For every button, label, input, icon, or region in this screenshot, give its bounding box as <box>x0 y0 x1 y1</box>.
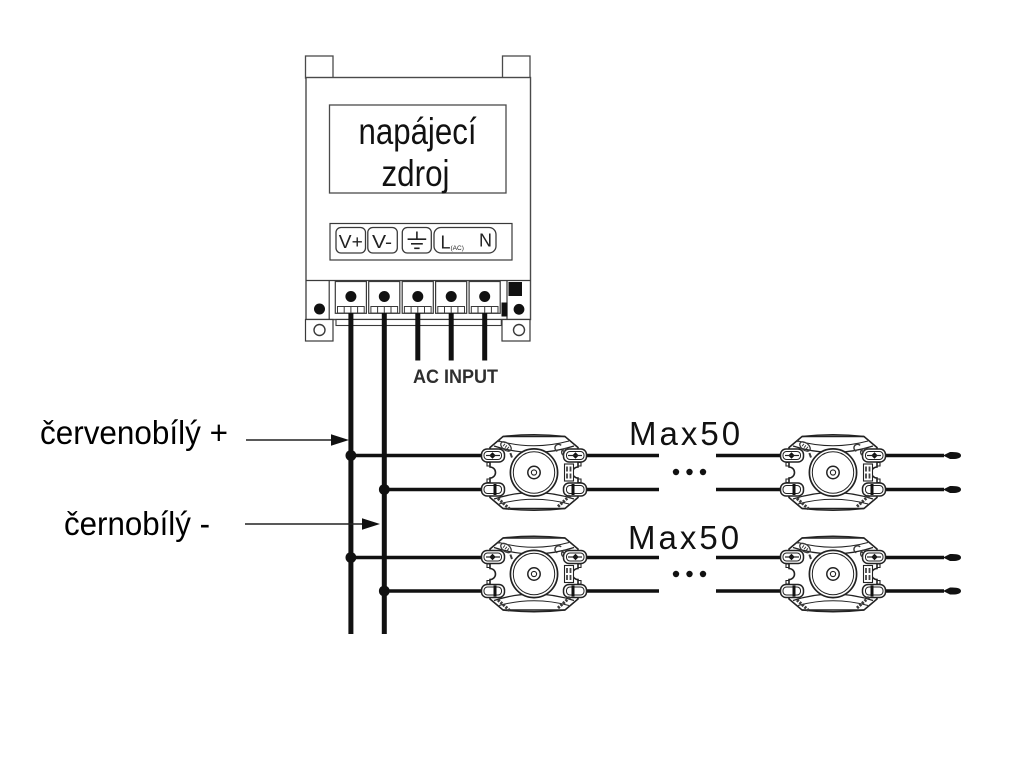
row1 chain wire top segment a <box>586 454 659 458</box>
row1 minus feed wire <box>384 488 482 492</box>
row2 tail wire top <box>885 556 944 560</box>
svg-text:červenobílý +: červenobílý + <box>40 414 228 451</box>
wire L stub <box>449 313 454 361</box>
svg-text:AC INPUT: AC INPUT <box>413 367 498 388</box>
svg-text:V-: V- <box>372 232 392 252</box>
terminal square 4 <box>436 282 467 314</box>
row1 chain wire bottom segment a <box>586 488 659 492</box>
row1 wire end bottom <box>943 486 961 493</box>
terminal square 3 <box>402 282 433 314</box>
junction node V- row1 <box>379 484 390 495</box>
terminal legend strip <box>330 224 512 261</box>
svg-text:zdroj: zdroj <box>382 153 450 194</box>
terminal square 2 <box>369 282 400 314</box>
row2 chain wire bottom segment b <box>716 589 781 593</box>
left mounting foot <box>306 320 334 342</box>
right band screw dot <box>514 304 525 315</box>
LED module M2 (row1 col2) <box>781 435 886 511</box>
svg-text:(AC): (AC) <box>451 245 464 252</box>
svg-text:Max50: Max50 <box>628 519 742 556</box>
row2 minus feed wire <box>384 589 482 593</box>
svg-text:napájecí: napájecí <box>359 111 478 152</box>
row2 ellipsis dots <box>673 571 706 577</box>
wire V- vertical <box>382 313 387 634</box>
right band small black bar <box>502 303 508 317</box>
row2 wire end top <box>943 554 961 561</box>
junction node V+ row2 <box>346 552 357 563</box>
row1 chain wire top segment b <box>716 454 781 458</box>
row1 chain wire bottom segment b <box>716 488 781 492</box>
arrow to V- wire <box>245 518 380 530</box>
svg-text:V+: V+ <box>339 232 363 252</box>
junction node V- row2 <box>379 586 390 597</box>
terminal square 5 <box>469 282 500 314</box>
row1 tail wire bottom <box>885 488 944 492</box>
row1 plus feed wire <box>351 454 482 458</box>
wire N stub <box>482 313 487 361</box>
power supply top-right mounting tab <box>503 56 531 78</box>
row2 chain wire bottom segment a <box>586 589 659 593</box>
right band divider <box>506 281 508 320</box>
svg-text:Max50: Max50 <box>629 415 743 452</box>
row2 chain wire top segment b <box>716 556 781 560</box>
wire earth stub <box>415 313 420 361</box>
row1 wire end top <box>943 452 961 459</box>
legend box earth <box>402 228 431 254</box>
row1 ellipsis dots <box>673 469 706 475</box>
row2 tail wire bottom <box>885 589 944 593</box>
legend box L(AC) N <box>434 228 496 254</box>
terminal square 1 <box>335 282 366 314</box>
svg-text:černobílý -: černobílý - <box>64 505 210 542</box>
power supply main box <box>306 78 531 320</box>
svg-text:N: N <box>479 231 492 251</box>
legend box V+ <box>336 228 366 254</box>
LED module M1 (row1 col1) <box>482 435 587 511</box>
power supply name plate rectangle <box>330 105 507 193</box>
LED module M3 (row2 col1) <box>482 536 587 612</box>
legend box V- <box>368 228 398 254</box>
row2 chain wire top segment a <box>586 556 659 560</box>
lower thin strip under terminals <box>336 320 501 326</box>
junction node V+ row1 <box>346 450 357 461</box>
LED module M4 (row2 col2) <box>781 536 886 612</box>
arrow to V+ wire <box>246 434 349 446</box>
left band divider <box>328 281 330 320</box>
row2 plus feed wire <box>351 556 482 560</box>
power supply top-left mounting tab <box>306 56 334 78</box>
row2 wire end bottom <box>943 587 961 594</box>
wire V+ vertical <box>348 313 353 634</box>
right band black square <box>509 282 523 296</box>
right mounting foot <box>502 320 530 342</box>
left band screw dot <box>314 304 325 315</box>
row1 tail wire top <box>885 454 944 458</box>
earth ground symbol <box>408 232 427 249</box>
terminal block band top line <box>306 280 531 282</box>
svg-text:L: L <box>441 233 451 253</box>
